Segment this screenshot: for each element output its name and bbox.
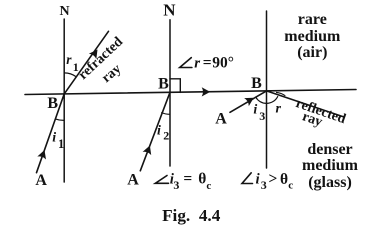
svg-text:1: 1 <box>58 137 64 151</box>
svg-text:i: i <box>52 131 56 146</box>
svg-text:r: r <box>194 55 200 71</box>
svg-text:N: N <box>163 1 176 20</box>
svg-text:N: N <box>59 4 69 19</box>
svg-text:denser: denser <box>307 141 352 158</box>
svg-text:rare: rare <box>298 11 327 28</box>
svg-text:A: A <box>35 172 47 189</box>
svg-text:90°: 90° <box>212 54 234 71</box>
svg-text:i: i <box>253 102 257 117</box>
svg-text:2: 2 <box>163 128 169 142</box>
svg-text:r: r <box>276 101 282 116</box>
svg-text:θ: θ <box>280 171 288 188</box>
svg-text:3: 3 <box>261 178 267 192</box>
svg-text:>: > <box>269 171 278 188</box>
svg-text:c: c <box>288 180 293 192</box>
svg-text:=: = <box>183 170 192 187</box>
svg-text:3: 3 <box>259 109 265 123</box>
svg-text:B: B <box>158 76 169 93</box>
svg-text:i: i <box>157 124 161 139</box>
svg-text:θ: θ <box>198 171 206 188</box>
svg-text:r: r <box>66 52 72 67</box>
svg-text:3: 3 <box>173 178 179 192</box>
svg-text:A: A <box>215 111 227 128</box>
svg-text:(glass): (glass) <box>308 174 352 191</box>
svg-text:c: c <box>206 180 211 192</box>
svg-text:Fig. 4.4: Fig. 4.4 <box>162 206 221 225</box>
svg-text:medium: medium <box>302 157 359 174</box>
svg-text:B: B <box>47 95 58 112</box>
svg-text:(air): (air) <box>297 44 327 61</box>
svg-text:B: B <box>251 75 262 92</box>
svg-text:=: = <box>203 54 212 71</box>
svg-text:A: A <box>127 171 139 188</box>
svg-text:medium: medium <box>284 28 341 45</box>
